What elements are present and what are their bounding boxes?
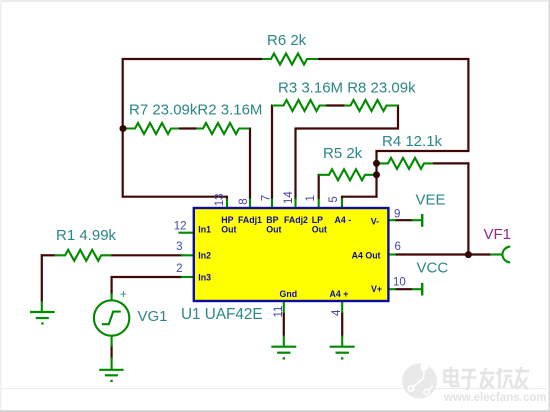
svg-text:A4 Out: A4 Out	[352, 250, 381, 260]
svg-text:R1 4.99k: R1 4.99k	[56, 227, 117, 244]
svg-text:R3 3.16M R8 23.09k: R3 3.16M R8 23.09k	[278, 80, 416, 97]
svg-text:HP: HP	[221, 215, 233, 225]
svg-text:14: 14	[283, 191, 295, 204]
svg-text:A4 -: A4 -	[335, 215, 352, 225]
svg-text:1: 1	[305, 195, 317, 201]
svg-text:www.elecfans.com: www.elecfans.com	[443, 392, 546, 404]
svg-text:A4 +: A4 +	[330, 289, 349, 299]
svg-text:13: 13	[214, 194, 226, 207]
svg-text:6: 6	[395, 241, 401, 253]
svg-text:9: 9	[394, 209, 400, 221]
svg-text:R6 2k: R6 2k	[267, 32, 307, 49]
svg-text:In1: In1	[198, 225, 211, 235]
svg-text:+: +	[120, 287, 127, 301]
svg-text:11: 11	[273, 306, 285, 318]
svg-text:VF1: VF1	[484, 226, 512, 243]
svg-text:FAdj1: FAdj1	[238, 215, 262, 225]
svg-text:Out: Out	[266, 225, 281, 235]
svg-text:V-: V-	[371, 217, 379, 227]
svg-text:In2: In2	[198, 251, 211, 261]
svg-text:BP: BP	[266, 215, 278, 225]
svg-text:12: 12	[174, 220, 187, 232]
svg-text:R5 2k: R5 2k	[323, 145, 363, 162]
svg-text:R7 23.09kR2 3.16M: R7 23.09kR2 3.16M	[129, 102, 262, 119]
svg-text:In3: In3	[198, 273, 211, 283]
svg-text:5: 5	[328, 196, 340, 202]
svg-text:4: 4	[331, 309, 343, 316]
svg-text:8: 8	[238, 198, 250, 204]
svg-text:Out: Out	[221, 225, 236, 235]
svg-text:U1 UAF42E: U1 UAF42E	[181, 306, 263, 323]
svg-text:10: 10	[393, 277, 406, 289]
svg-text:3: 3	[176, 241, 182, 253]
svg-text:LP: LP	[312, 215, 323, 225]
svg-text:VEE: VEE	[416, 192, 446, 209]
svg-text:2: 2	[176, 263, 182, 275]
svg-text:FAdj2: FAdj2	[284, 215, 308, 225]
svg-text:VG1: VG1	[138, 308, 168, 325]
svg-text:V+: V+	[371, 284, 382, 294]
svg-text:R4 12.1k: R4 12.1k	[382, 133, 443, 150]
svg-text:7: 7	[260, 195, 272, 201]
svg-text:Out: Out	[312, 225, 327, 235]
svg-text:VCC: VCC	[417, 259, 449, 276]
svg-text:Gnd: Gnd	[280, 289, 298, 299]
